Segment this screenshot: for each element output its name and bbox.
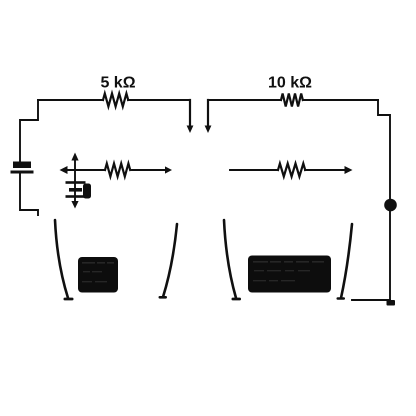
node stub terminal right loop [207,100,209,126]
junction blob bottom right [387,300,396,306]
resistor R2 [281,94,303,107]
leader arc left-b [163,224,177,297]
wire top rail right [208,99,378,101]
wire left lower [20,175,38,216]
leader arc right-b [341,224,352,298]
wire left step [20,100,38,161]
arrowhead V1 down [71,201,78,209]
resistor R4 [278,164,305,177]
component box left [78,257,118,293]
leader arc right-a [224,220,236,298]
wire top rail left [38,99,190,101]
battery B1 long plate [13,162,31,169]
arrowhead i1 left tip [60,166,68,174]
wire bottom right [352,299,390,301]
arrow i1 shaft mid left [66,169,166,171]
svg-text:5 kΩ: 5 kΩ [100,75,135,92]
arrow V1 vertical shaft [74,158,76,204]
arrowhead V1 up [71,153,78,161]
svg-text:10 kΩ: 10 kΩ [268,75,312,92]
component box right [248,256,331,293]
resistor R1 [103,94,128,107]
arrowhead stub right [205,126,212,134]
arrow i2 shaft mid right [230,169,345,171]
battery B1 short plate [11,171,34,174]
arrowhead stub left [187,126,194,134]
wire right step [378,100,390,300]
leader arc left-a foot [64,298,74,301]
leader arc left-a [55,220,68,298]
leader arc right-a foot [232,298,242,301]
leader arc left-b foot [159,296,168,299]
resistor R3 [105,164,130,177]
battery V1 bars [66,181,86,184]
leader arc right-b foot [337,297,346,300]
arrowhead i1 tail nub [165,166,172,173]
node stub terminal left loop [189,100,191,126]
current source dot D1 [384,199,397,212]
arrowhead i2 right tip [345,166,353,174]
